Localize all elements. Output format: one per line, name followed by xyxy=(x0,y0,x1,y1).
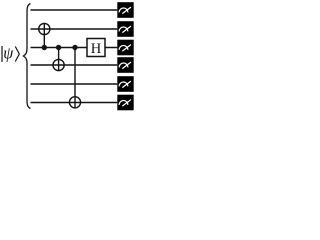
svg-text:ψ: ψ xyxy=(3,44,13,63)
svg-text:H: H xyxy=(91,41,102,57)
